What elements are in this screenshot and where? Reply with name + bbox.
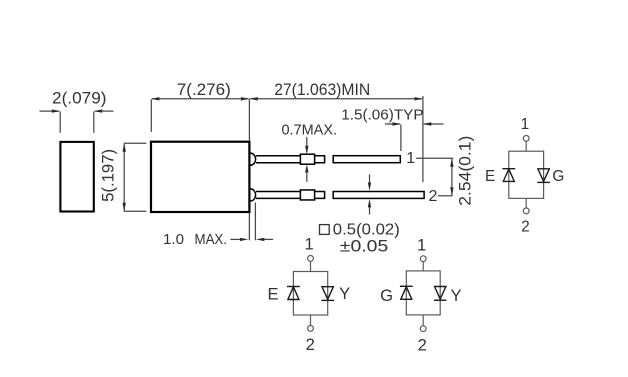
front view body [151,142,249,212]
lead 2 kink [300,190,314,200]
svg-text:±0.05: ±0.05 [340,238,389,256]
pin label 2 [429,188,438,205]
lead 1 first segment [256,156,300,163]
dimension 1.0 MAX. arrows [230,238,273,241]
U1 label G [552,168,564,185]
U1 pin 2 label [521,218,530,235]
U1 diode D2 (G, down) [537,169,550,183]
schematic symbol U1 (E/G) loop [509,151,544,198]
schematic symbol U2 (E/Y) loop [293,272,327,316]
svg-text:1.5(.06)TYP: 1.5(.06)TYP [341,107,423,124]
U2 pin 2 stub and terminal [308,315,314,331]
dimension 7(.276) line and arrows [151,97,249,100]
dimension 1.5(.06)TYP arrows [385,122,444,125]
dimension 1.5(.06)TYP label [341,107,423,124]
U2 pin 2 label [306,335,315,354]
svg-text:27(1.063)MIN: 27(1.063)MIN [274,80,370,99]
U2 diode D2 (Y, down) [321,287,334,301]
svg-text:2: 2 [418,336,427,355]
dimension 27 MIN right extension line [422,96,424,182]
svg-text:2: 2 [429,188,438,205]
schematic symbol U3 (G/Y) loop [406,271,440,315]
square symbol of 0.5(0.02) [320,225,330,235]
U1 pin 2 stub and terminal [523,198,529,213]
lead 1 after kink [315,156,325,163]
U3 diode D2 (Y, down) [434,287,447,301]
U1 diode D1 (E, up) [502,169,515,182]
svg-text:2: 2 [306,335,315,354]
U2 pin 1 stub and terminal [308,256,314,272]
svg-text:1: 1 [417,236,426,255]
dimension 2.54(0.1) line and arrows [450,158,453,196]
lead 1 bump at body [250,153,255,165]
dimension 0.7MAX. arrows [305,137,308,182]
svg-text:Y: Y [450,286,461,305]
lead 1 second segment [333,156,400,163]
pin label 1 [406,150,415,167]
pin 1 leader line [416,157,453,159]
lead 2 second segment [333,192,424,199]
body right edge extension line above and below [248,99,250,241]
U1 pin 1 label [521,116,530,133]
dimension 1.5 TYP extension line [400,125,402,152]
bump edge extension line [254,203,256,241]
U1 pin 1 stub and terminal [523,136,529,152]
svg-text:0.5(0.02): 0.5(0.02) [333,222,400,239]
U3 diode D1 (G, up) [400,286,413,299]
lead 1 kink [300,154,314,164]
dimension 5(.197) label [100,149,118,202]
svg-text:2.54(0.1): 2.54(0.1) [456,136,474,206]
dimension 0.5(0.02) label [333,222,400,239]
svg-text:E: E [267,284,278,303]
dimension 27(1.063)MIN label [274,80,370,99]
dimension square 0.5 leader arrows [368,174,371,214]
lead 2 bump at body [250,189,255,201]
U3 pin 1 label [417,236,426,255]
U3 label G [380,286,393,305]
svg-text:1: 1 [406,150,415,167]
dimension 0.7MAX. label [282,122,338,139]
svg-text:E: E [485,168,495,185]
svg-text:G: G [552,168,564,185]
dimension 2(.079) extension lines [60,112,94,133]
dimension 7(.276) label [177,80,231,99]
svg-text:Y: Y [339,284,350,303]
dimension 2.54(0.1) label [456,136,474,206]
dimension 2(.079) arrows [40,109,114,112]
dimension 1.0 MAX. label [163,232,227,248]
svg-text:5(.197): 5(.197) [100,149,118,202]
side view body [60,142,93,212]
U3 label Y [450,286,461,305]
svg-text:1.0: 1.0 [163,232,184,248]
svg-text:2: 2 [521,218,530,235]
svg-text:0.7MAX.: 0.7MAX. [282,122,338,139]
dimension 2(.079) label [52,89,107,108]
pin 2 leader line [438,195,453,197]
U2 pin 1 label [304,235,313,254]
svg-text:MAX.: MAX. [195,232,228,248]
U1 label E [485,168,495,185]
dimension ±0.05 label [340,238,389,256]
U3 pin 1 stub and terminal [420,256,426,271]
svg-text:2(.079): 2(.079) [52,89,107,108]
svg-text:G: G [380,286,393,305]
U2 diode D1 (E, up) [287,287,300,300]
lead 2 first segment [256,192,300,199]
dimension 7(.276) extension line left [150,99,152,132]
dimension 5(.197) line and arrows [123,143,147,211]
svg-text:7(.276): 7(.276) [177,80,231,99]
U2 label E [267,284,278,303]
dimension 27(1.063)MIN line and arrows [249,97,423,100]
U3 pin 2 stub and terminal [420,315,426,332]
svg-text:1: 1 [304,235,313,254]
U2 label Y [339,284,350,303]
svg-text:1: 1 [521,116,530,133]
lead 2 after kink [315,192,325,199]
U3 pin 2 label [418,336,427,355]
